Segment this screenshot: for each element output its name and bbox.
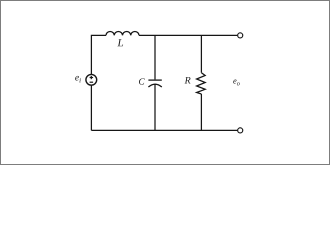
wire top-left from source rail to inductor xyxy=(91,35,106,74)
label e_i xyxy=(75,76,81,83)
wire inductor to top-right terminal xyxy=(139,34,237,36)
label e_o xyxy=(233,80,239,86)
wire bottom rail xyxy=(91,129,237,131)
inductor L xyxy=(106,31,139,35)
resistor R xyxy=(197,73,206,94)
wire resistor branch bottom xyxy=(200,94,202,130)
terminal top-right xyxy=(238,33,243,38)
wire resistor branch top xyxy=(200,35,202,72)
wire source bottom to bottom rail xyxy=(90,85,92,130)
label R xyxy=(185,77,191,84)
label C xyxy=(139,78,145,84)
terminal bottom-right xyxy=(238,128,243,133)
label L xyxy=(117,39,123,46)
voltage source e_i xyxy=(86,74,97,85)
wire capacitor branch bottom xyxy=(154,84,156,130)
capacitor C xyxy=(148,80,161,87)
wire capacitor branch top xyxy=(154,35,156,79)
